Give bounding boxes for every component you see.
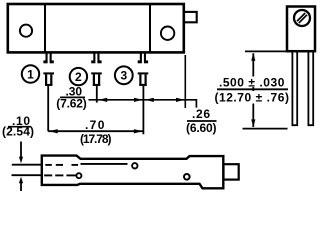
dimension .70 (17.78) text	[80, 118, 112, 146]
svg-text:(12.70 ± .76): (12.70 ± .76)	[214, 90, 289, 104]
lead length up arrowhead	[251, 53, 255, 61]
lead pitch down arrow	[19, 142, 23, 164]
pin 3 upper stub	[138, 52, 148, 63]
lead pitch up arrow	[19, 177, 23, 191]
front view left divider	[44, 4, 46, 52]
side view rivet A	[76, 173, 81, 178]
svg-text:1: 1	[27, 67, 34, 81]
end view lead 1	[292, 51, 297, 125]
dimension .30 (7.62) text	[56, 85, 87, 111]
svg-text:(2.54): (2.54)	[2, 125, 34, 139]
trimmer front view body	[8, 4, 184, 52]
side view rivet C	[184, 174, 190, 180]
pin 2 lead	[96, 86, 98, 103]
lead length down arrowhead	[251, 119, 255, 127]
end view adjustment screw	[294, 10, 310, 26]
svg-text:(7.62): (7.62)	[56, 97, 87, 111]
screw slot lines	[297, 13, 307, 23]
pin number 2 balloon	[70, 68, 87, 85]
pin 1 kink	[43, 72, 54, 86]
lead length dimension vertical line	[252, 53, 254, 127]
svg-text:(6.60): (6.60)	[186, 121, 217, 135]
svg-text:.70: .70	[85, 118, 105, 132]
wiper track line	[81, 163, 128, 165]
side view lower lead	[12, 174, 42, 176]
end view body	[287, 7, 315, 52]
pin 2 upper stub	[91, 52, 101, 63]
front view side tab	[184, 12, 197, 22]
front view right hole	[161, 27, 174, 40]
svg-text:3: 3	[120, 69, 127, 83]
side view body outline	[42, 156, 224, 189]
pin 3 kink	[138, 72, 149, 86]
front view left hole	[20, 25, 32, 37]
arrowheads on pin spacing dimension	[99, 98, 185, 102]
svg-text:(17.78): (17.78)	[80, 132, 112, 146]
lead end extension line	[243, 128, 288, 130]
body right edge extension line	[184, 55, 186, 108]
dimension .70 line	[48, 130, 143, 132]
pin number 3 balloon	[115, 66, 133, 84]
pin number 1 balloon	[22, 65, 39, 82]
svg-text:2: 2	[75, 70, 82, 84]
pin 1 lead	[47, 86, 49, 131]
dimension .26 (6.60) text	[186, 107, 217, 135]
side view upper lead	[12, 164, 42, 166]
side view end tab	[224, 164, 239, 179]
seating plane extension line	[245, 50, 287, 52]
dimension .10 (2.54) text	[2, 114, 34, 139]
pin 3 lead	[142, 86, 144, 134]
svg-text:.500 ± .030: .500 ± .030	[219, 76, 285, 90]
front view right divider	[149, 4, 151, 52]
dimension .500 (12.70) text	[214, 76, 289, 105]
side view rivet B	[132, 163, 137, 168]
arrowheads on .70 dimension	[49, 129, 143, 133]
pin 2 kink	[91, 72, 102, 86]
hidden lead upper dashes	[45, 164, 78, 166]
dimension line pins 2-3 and .26 leader	[89, 99, 197, 108]
svg-text:.26: .26	[192, 107, 210, 121]
hidden lead lower dashes	[44, 174, 76, 176]
pin 1 upper stub	[43, 52, 53, 63]
end view lead 2	[308, 51, 313, 125]
